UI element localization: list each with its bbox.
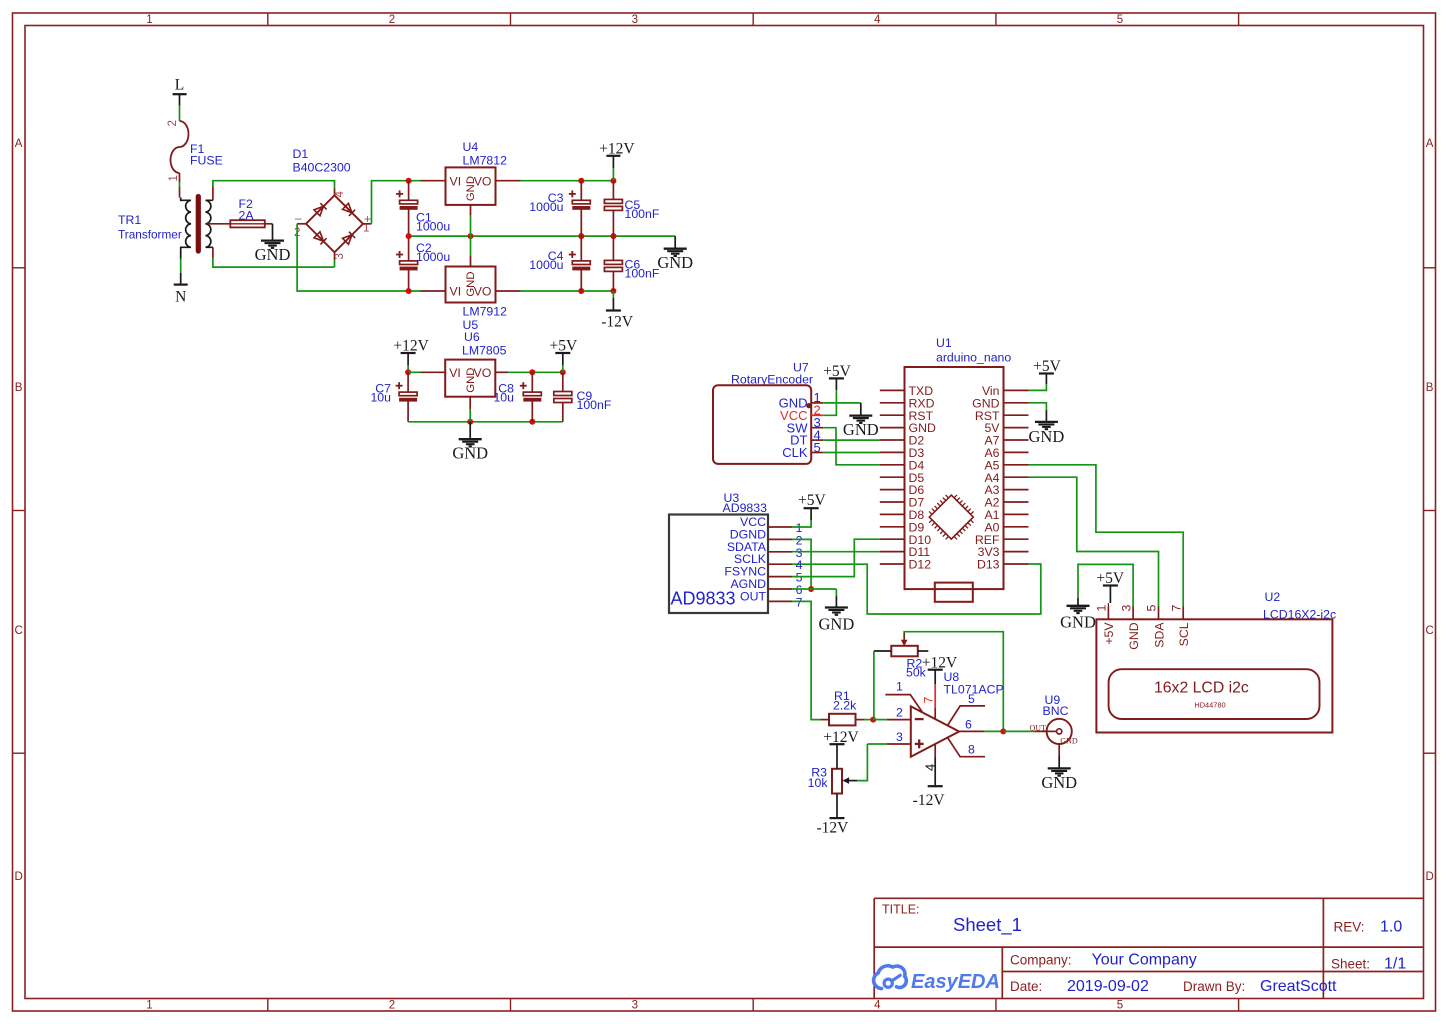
pin U1 D10 stub [880, 538, 905, 540]
svg-text:LM7912: LM7912 [463, 305, 508, 319]
label U8 TL071ACP [944, 670, 1004, 697]
title block Company [1010, 952, 1197, 969]
svg-text:GND: GND [843, 420, 879, 439]
pin U1 RST stub [880, 414, 905, 416]
wire TR1 center tap to F2 [207, 223, 230, 225]
svg-text:1000u: 1000u [416, 220, 450, 234]
svg-text:GND: GND [255, 245, 291, 264]
fuse F2 [230, 220, 264, 227]
svg-text:GND: GND [465, 271, 477, 296]
power flag +5V u3 [798, 492, 826, 520]
wire +12V to U6 [408, 371, 445, 373]
svg-text:GND: GND [819, 614, 855, 633]
label C9 100nF [577, 389, 612, 412]
pin U1 D8 stub [880, 513, 905, 515]
wire bridge pin 2 stub [297, 223, 306, 225]
pin U1 A7 stub right [1004, 439, 1029, 441]
wire U3 DGND down [792, 539, 811, 589]
wire R3 bottom to -12V [830, 794, 845, 819]
svg-text:OUT: OUT [1030, 723, 1047, 732]
title block REV [1334, 919, 1403, 936]
junction mid rail C1C2 [406, 233, 412, 239]
pin U3 DGND stub [768, 538, 792, 540]
svg-text:VI: VI [450, 285, 462, 299]
pin 4 U7 DT stub [811, 439, 823, 441]
junction U3 AGND node [808, 586, 814, 592]
wire -12V flag lead [612, 291, 614, 311]
capacitor C8 [520, 382, 542, 401]
pin U1 A4 stub right [1004, 476, 1029, 478]
svg-text:HD44780: HD44780 [1194, 700, 1225, 709]
label U6 LM7805 [462, 330, 507, 358]
svg-text:7: 7 [922, 697, 936, 704]
regulator U6 [445, 360, 495, 397]
wire U6 gnd pin [469, 397, 471, 422]
svg-text:OUT: OUT [740, 589, 766, 603]
pin U1 TXD stub [880, 389, 905, 391]
svg-text:16x2 LCD i2c: 16x2 LCD i2c [1154, 679, 1249, 696]
svg-text:4: 4 [334, 191, 346, 198]
pin U1 A0 stub right [1004, 526, 1029, 528]
capacitor C5 [604, 199, 622, 210]
label R1 2.2k [833, 689, 857, 713]
svg-text:REV:: REV: [1334, 920, 1365, 935]
title block DrawnBy [1183, 978, 1337, 995]
label R2 50k [906, 656, 927, 679]
pin U3 SCLK stub [768, 563, 792, 565]
svg-text:Sheet_1: Sheet_1 [953, 914, 1022, 936]
label C1 1000u [416, 211, 450, 234]
wire bridge pin3 to rail [334, 260, 336, 267]
svg-text:GND: GND [465, 176, 477, 201]
wire A5 to LCD SCL [1029, 465, 1184, 607]
power flag +5V lcd [1096, 570, 1124, 603]
wire +5V to U7 VCC [823, 390, 836, 415]
svg-text:10u: 10u [493, 391, 514, 405]
wire C3 leads [580, 181, 582, 236]
pin U1 D6 stub [880, 489, 905, 491]
svg-text:4: 4 [922, 764, 937, 771]
svg-text:D13: D13 [977, 558, 1000, 572]
wire C6 leads [612, 236, 614, 291]
net flag N [174, 285, 188, 306]
junction mid rail C5C6 [610, 233, 616, 239]
svg-text:A: A [1426, 138, 1434, 150]
svg-text:5: 5 [1117, 1000, 1123, 1012]
pin 2 U7 VCC stub [811, 414, 823, 416]
label U4 LM7812 [463, 140, 508, 168]
wire output to BNC [1003, 730, 1034, 732]
power flag +12V r3 [823, 729, 859, 769]
wire F1 to TR1 [179, 173, 181, 198]
wire opamp output [959, 730, 1003, 732]
wire U4 output [496, 180, 614, 182]
pin U1 Vin stub right [1004, 389, 1029, 391]
wire C5 leads [612, 181, 614, 236]
pin 3 U7 SW stub [811, 427, 823, 429]
pin U1 D13 stub right [1004, 563, 1029, 565]
pin U1 A5 stub right [1004, 464, 1029, 466]
pin 5 U7 CLK stub [811, 452, 823, 454]
label U9 BNC [1043, 693, 1069, 718]
svg-text:+5V: +5V [549, 338, 577, 355]
pin U1 D9 stub [880, 526, 905, 528]
wire L to F1 [179, 94, 181, 121]
svg-text:C: C [14, 625, 22, 637]
junction U7 GND pin [806, 403, 811, 408]
svg-text:10u: 10u [370, 391, 391, 405]
wire U7 GND to ground [823, 403, 861, 416]
label C8 10u [493, 382, 514, 405]
capacitor C6 [604, 260, 622, 271]
svg-text:SDA: SDA [1152, 622, 1166, 648]
svg-text:+12V: +12V [599, 141, 635, 158]
pin U1 GND stub right [1004, 402, 1029, 404]
svg-text:2.2k: 2.2k [833, 699, 857, 713]
svg-text:L: L [175, 77, 184, 94]
svg-text:SCL: SCL [1177, 622, 1191, 646]
svg-text:2A: 2A [239, 209, 255, 223]
wire mid rail gnd lead [674, 236, 676, 249]
wire bridge pin 1 stub [363, 223, 372, 225]
potentiometer R2 [874, 633, 928, 656]
power flag +12V main [599, 141, 635, 158]
svg-text:Transformer: Transformer [118, 228, 182, 242]
label U1 arduino_nano [936, 336, 1011, 365]
rotary encoder U7 body [713, 385, 811, 464]
svg-text:1: 1 [1095, 605, 1109, 612]
ground near U7 [843, 416, 879, 440]
label D1 B40C2300 [293, 147, 351, 175]
capacitor C7 [396, 382, 418, 401]
junction +12V node [610, 178, 616, 184]
svg-text:GreatScott: GreatScott [1260, 978, 1337, 995]
wire U3 VCC to +5V [792, 520, 811, 527]
wire LCD gnd lead [1077, 598, 1079, 606]
svg-text:–: – [295, 211, 302, 225]
pin 1 U8 lead [885, 695, 922, 713]
pin U1 D2 stub [880, 439, 905, 441]
junction C1 top [406, 178, 412, 184]
svg-text:1000u: 1000u [529, 200, 563, 214]
svg-text:Date:: Date: [1010, 979, 1042, 994]
svg-text:7: 7 [1169, 605, 1183, 612]
label C6 100nF [625, 258, 660, 281]
junction mid rail U4U5 gnd [468, 233, 474, 239]
wire +12V unreg rail into U4 [421, 180, 446, 182]
wire U1 GND right [1029, 403, 1047, 422]
svg-text:A: A [15, 138, 23, 150]
svg-text:3: 3 [334, 253, 346, 259]
label U7 RotaryEncoder [731, 361, 813, 387]
svg-text:2: 2 [167, 120, 179, 126]
svg-text:3: 3 [632, 1000, 638, 1012]
wire +12V to pin7 [934, 684, 936, 719]
ground right of U1 [1029, 422, 1065, 446]
pin U3 FSYNC stub [768, 576, 792, 578]
wire bridge minus to negative rail [297, 224, 420, 291]
svg-text:TR1: TR1 [118, 213, 141, 227]
svg-text:B40C2300: B40C2300 [293, 161, 351, 175]
pin U1 D7 stub [880, 501, 905, 503]
wire feedback R2 to output [904, 632, 1003, 732]
wire BNC gnd [1058, 744, 1060, 768]
svg-text:1000u: 1000u [529, 258, 563, 272]
svg-text:BNC: BNC [1043, 704, 1069, 718]
wire C2 leads [408, 236, 410, 291]
wire ground mid rail [409, 235, 676, 237]
junction +5V node [560, 369, 566, 375]
wire stub bridge pin 4 [334, 189, 336, 196]
svg-text:VI: VI [450, 174, 462, 188]
wire TR1 secondary top pin [212, 186, 214, 200]
wire F2 to ground [265, 224, 273, 241]
junction u6 gnd rail [467, 419, 473, 425]
wire secondary top to bridge pin 4 [213, 181, 335, 189]
pin U1 A6 stub right [1004, 451, 1029, 453]
svg-text:1000u: 1000u [416, 250, 450, 264]
svg-text:GND: GND [657, 253, 693, 272]
svg-text:GND: GND [1127, 622, 1141, 649]
svg-text:B: B [1426, 382, 1434, 394]
wire TR1 primary bottom to N [180, 259, 182, 285]
pin U1 3V3 stub right [1004, 551, 1029, 553]
svg-text:1: 1 [168, 175, 180, 181]
resistor R1 [829, 714, 856, 726]
wire U3 OUT to R1 [792, 601, 821, 719]
svg-text:AD9833: AD9833 [723, 501, 768, 515]
svg-text:100nF: 100nF [577, 398, 612, 412]
wire U5 gnd pin [470, 236, 472, 266]
wire R1 right lead [856, 719, 874, 721]
wire C4 leads [580, 236, 582, 291]
svg-text:5: 5 [968, 692, 975, 706]
junction C7 top [405, 369, 411, 375]
qfp chip glyph inside U1 [929, 495, 973, 539]
wire bridge plus to positive rail [372, 181, 421, 224]
svg-text:LCD16X2-i2c: LCD16X2-i2c [1263, 608, 1336, 622]
svg-text:4: 4 [874, 14, 881, 26]
svg-text:D: D [1425, 871, 1433, 883]
wire LCD GND [1078, 564, 1133, 606]
pin U3 AGND stub [768, 588, 792, 590]
svg-text:U6: U6 [464, 330, 480, 344]
svg-text:Company:: Company: [1010, 953, 1072, 968]
wire C9 leads [562, 372, 564, 422]
svg-text:1: 1 [896, 679, 903, 693]
svg-text:VI: VI [449, 366, 461, 380]
svg-text:6: 6 [965, 717, 972, 731]
svg-text:U1: U1 [936, 336, 952, 350]
svg-text:2019-09-02: 2019-09-02 [1067, 978, 1149, 995]
label U2 LCD16X2-i2c [1263, 590, 1336, 622]
wire +5V lcd pin1 [1107, 603, 1109, 607]
pin U1 REF stub right [1004, 538, 1029, 540]
svg-text:+5V: +5V [1102, 622, 1116, 645]
fuse F1 [167, 120, 189, 181]
power flag -12V main [601, 311, 634, 331]
pin U1 RXD stub [880, 402, 905, 404]
potentiometer R3 [832, 769, 857, 794]
usb connector glyph U1 [935, 583, 973, 602]
bridge rectifier D1 [294, 191, 371, 260]
pin U1 D3 stub [880, 451, 905, 453]
wire R2 left to inverting node [873, 651, 875, 720]
pin U1 A1 stub right [1004, 513, 1029, 515]
label C7 10u [370, 382, 391, 405]
wire U3 SDATA to D11 [792, 551, 880, 553]
capacitor C3 [569, 190, 591, 209]
svg-text:2: 2 [896, 705, 903, 719]
wire node to opamp pin2 [873, 719, 911, 721]
svg-text:Drawn By:: Drawn By: [1183, 979, 1245, 994]
junction C2 bottom [406, 288, 412, 294]
svg-text:5: 5 [1117, 14, 1123, 26]
ground below U6 [452, 439, 488, 463]
label F1 FUSE [190, 142, 223, 168]
label LM7912 U5 [463, 305, 508, 333]
junction output node [1000, 728, 1006, 734]
ground below U3 [819, 608, 855, 634]
svg-text:D: D [14, 871, 22, 883]
wire R1 left lead [821, 719, 830, 721]
svg-text:4: 4 [874, 1000, 881, 1012]
svg-text:EasyEDA: EasyEDA [911, 971, 1000, 993]
ground near F2 [255, 241, 291, 265]
junction C8 top [529, 369, 535, 375]
svg-text:U2: U2 [1265, 590, 1281, 604]
wire U3 AGND to ground [792, 589, 836, 608]
power flag +12V u6 [393, 338, 429, 373]
pin 8 U8 lead [948, 738, 986, 757]
label C4 1000u [529, 249, 563, 272]
svg-text:FUSE: FUSE [190, 154, 223, 168]
svg-text:CLK: CLK [782, 445, 808, 460]
title block Sheet [1331, 956, 1406, 973]
svg-text:100nF: 100nF [625, 267, 660, 281]
wire U6 output [495, 371, 563, 373]
pin 1 U7 GND stub [811, 402, 823, 404]
svg-text:GND: GND [1029, 427, 1065, 446]
svg-text:-12V: -12V [601, 314, 634, 331]
svg-text:8: 8 [968, 743, 975, 757]
capacitor C1 [396, 190, 418, 209]
wire D13 to AD9833 SCLK [792, 564, 1041, 614]
svg-text:1: 1 [146, 1000, 152, 1012]
wire R3 wiper to pin3 [857, 744, 867, 781]
pin U1 D12 stub [880, 563, 905, 565]
svg-text:10k: 10k [808, 776, 829, 790]
pin 5 U8 lead [948, 706, 986, 726]
svg-text:Sheet:: Sheet: [1331, 957, 1370, 972]
label U3 AD9833 [723, 491, 768, 515]
svg-text:LM7812: LM7812 [463, 154, 508, 168]
power flag +12V u8 [922, 654, 958, 684]
svg-text:TITLE:: TITLE: [882, 903, 920, 917]
regulator U4 [446, 167, 496, 205]
svg-text:U4: U4 [463, 140, 479, 154]
AD9833 U3 body [669, 515, 768, 614]
wire A4 to LCD SDA [1029, 477, 1159, 606]
svg-text:GND: GND [465, 368, 477, 393]
wire C8 leads [531, 372, 533, 422]
svg-text:100nF: 100nF [625, 207, 660, 221]
capacitor C2 [396, 251, 418, 270]
svg-text:B: B [15, 382, 23, 394]
ground below BNC [1041, 768, 1077, 792]
pin 5 U2 stub [1158, 607, 1160, 620]
transformer TR1 [180, 189, 213, 259]
pin U3 OUT stub [768, 600, 792, 602]
pin U1 D5 stub [880, 476, 905, 478]
wire TR1 secondary bottom pin [212, 247, 214, 258]
LCD screen glyph [1109, 669, 1320, 719]
pin 7 U2 stub [1182, 607, 1184, 620]
ground mid rail [657, 249, 693, 273]
junction C3 top [578, 178, 584, 184]
power flag +5V u6 [549, 338, 577, 373]
net flag L [173, 77, 187, 95]
title block table [874, 898, 1423, 998]
junction -12V node [610, 288, 616, 294]
wire +5V to Vin [1029, 384, 1047, 390]
pin U1 D4 stub [880, 464, 905, 466]
pin U1 A3 stub right [1004, 489, 1029, 491]
svg-text:GND: GND [1060, 612, 1096, 631]
svg-text:1: 1 [146, 14, 152, 26]
pin 1 U2 stub [1107, 607, 1109, 620]
junction mid rail C3C4 [578, 233, 584, 239]
svg-text:GND: GND [1060, 737, 1078, 746]
wire C7 leads [407, 372, 409, 422]
arduino nano U1 body [905, 367, 1004, 589]
wire +12V flag lead [612, 156, 614, 181]
pin U3 SDATA stub [768, 551, 792, 553]
svg-text:-12V: -12V [913, 792, 946, 809]
wire U3 FSYNC to D10 [792, 539, 880, 576]
svg-text:5: 5 [814, 440, 821, 455]
svg-text:AD9833: AD9833 [671, 589, 736, 609]
wire U7 SW to D4 [823, 428, 880, 465]
wire stub bridge pin 3 [334, 252, 336, 260]
junction C4 bottom [578, 288, 584, 294]
label R3 10k [808, 766, 829, 790]
LCD U2 body [1096, 619, 1332, 732]
svg-text:3: 3 [896, 730, 903, 744]
svg-text:1/1: 1/1 [1384, 956, 1406, 973]
svg-text:GND: GND [452, 444, 488, 463]
label F2 2A [239, 197, 255, 223]
label C3 1000u [529, 191, 563, 214]
wire U4 gnd pin [470, 205, 472, 236]
wire pin4 to -12V [928, 744, 943, 786]
svg-text:2: 2 [389, 1000, 395, 1012]
junction inverting input node [870, 717, 876, 723]
pin U1 RST stub right [1004, 414, 1029, 416]
BNC connector U9 [1030, 719, 1078, 746]
svg-text:Your Company: Your Company [1092, 952, 1197, 969]
wire U5 output [496, 290, 614, 292]
title block Date [1010, 978, 1149, 995]
EasyEDA logo [874, 966, 1000, 993]
wire u6 bottom rail [408, 421, 563, 423]
pin U3 VCC stub [768, 526, 792, 528]
capacitor C4 [569, 251, 591, 270]
pin 3 U2 stub [1132, 607, 1134, 620]
svg-text:+5V: +5V [798, 492, 826, 509]
wire u6 gnd lead [469, 422, 471, 439]
regulator U5 [446, 267, 496, 303]
